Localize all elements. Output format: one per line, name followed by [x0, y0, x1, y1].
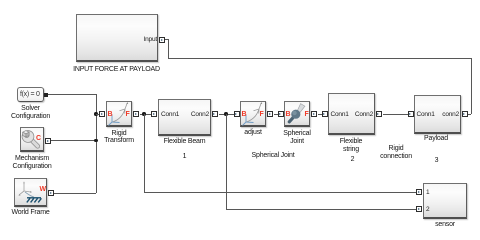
port label 1 of sensor [426, 189, 429, 196]
pin label F (red) of Spherical Joint [305, 111, 309, 118]
port world frame W [48, 190, 54, 196]
wire down segment to Payload conn2 [471, 58, 472, 114]
block Flexible Beam [158, 99, 211, 136]
annotation 1 [183, 153, 187, 161]
icon adjust frames [240, 101, 266, 127]
port RT B [99, 111, 105, 117]
wire horizontal to sensor port 2 [226, 209, 416, 210]
wire horizontal to sensor port 1 [144, 192, 416, 193]
block Payload [414, 95, 461, 134]
icon rigid transform frames [106, 101, 132, 127]
junction bus to Rigid Transform [94, 112, 98, 116]
block sensor [423, 183, 467, 219]
pin label W (red) [40, 186, 47, 193]
junction bus to mechanism wire [94, 139, 98, 143]
port label Conn2 of Flexible Beam [191, 111, 209, 118]
port SJ B [278, 111, 284, 117]
annotation Spherical Joint [252, 152, 295, 160]
port solver configuration (filled) [44, 93, 48, 97]
port Payload conn2 [462, 111, 468, 117]
label Spherical Joint (block) [283, 130, 310, 145]
port label Input [144, 36, 157, 43]
pin label F (red) of adjust [260, 111, 264, 118]
icon wrench [20, 127, 44, 152]
port label conn2 of Payload [442, 111, 459, 118]
label Flexible Beam [164, 138, 206, 146]
wire adjust F to Spherical Joint B [274, 114, 278, 115]
label Flexible string [340, 138, 363, 153]
wire world frame to bus [54, 193, 96, 194]
annotation 3 [435, 157, 439, 165]
block Flexible string [328, 93, 375, 135]
label INPUT FORCE AT PAYLOAD [73, 66, 160, 74]
block Mechanism Configuration [20, 127, 44, 152]
port SJ F [311, 111, 317, 117]
wire stub into Payload conn2 [468, 114, 471, 115]
port label 2 of sensor [426, 206, 429, 213]
label Solver Configuration [11, 105, 50, 121]
wire FB Conn2 to adjust B [219, 114, 234, 115]
wire RT F to Flexible Beam Conn1 [140, 114, 152, 115]
port adjust B [234, 111, 240, 117]
wire junction down toward sensor 1 [144, 114, 145, 192]
wire Input down segment [168, 39, 169, 58]
block adjust (rigid transform) [240, 101, 266, 127]
annotation Rigid connection [380, 145, 412, 161]
junction RT-FB node [142, 112, 146, 116]
port sensor 2 [416, 206, 422, 212]
pin label B (red) of Spherical Joint [286, 111, 291, 118]
port FB Conn2 [212, 111, 218, 117]
junction FB-adjust node [224, 112, 228, 116]
pin label C (red) [36, 135, 41, 142]
port Payload Conn1 [408, 111, 414, 117]
wire solver to bus [48, 94, 96, 95]
icon text f(x) = 0 [20, 91, 40, 98]
label Payload [424, 135, 448, 143]
port Input of INPUT FORCE AT PAYLOAD [159, 37, 165, 43]
label Mechanism Configuration [12, 155, 51, 171]
wire FS Conn2 to Payload Conn1 [383, 114, 408, 115]
icon ball joint [284, 101, 310, 127]
annotation 2 [351, 156, 355, 164]
label adjust [244, 129, 261, 137]
pin label F (red) of Rigid Transform [126, 111, 130, 118]
block World Frame [14, 178, 47, 207]
pin label B (red) of adjust [242, 111, 247, 118]
block Solver Configuration [17, 87, 44, 102]
wire mechanism to bus [51, 140, 96, 141]
wire junction down toward sensor 2 [226, 114, 227, 209]
port FS Conn2 [376, 111, 382, 117]
label World Frame [11, 209, 49, 217]
icon world frame axes and ground [14, 178, 47, 207]
port label Conn2 of Flexible string [355, 111, 373, 118]
wire Input long horizontal segment [168, 58, 471, 59]
wire bus vertical [96, 94, 97, 193]
port label Conn1 of Flexible string [331, 111, 349, 118]
port FB Conn1 [151, 111, 157, 117]
port label Conn1 of Payload [417, 111, 435, 118]
port sensor 1 [416, 189, 422, 195]
subsystem block INPUT FORCE AT PAYLOAD [76, 14, 158, 62]
wire bus to RT B port [96, 114, 100, 115]
pin label B (red) of Rigid Transform [108, 111, 113, 118]
port adjust F [267, 111, 273, 117]
port RT F [133, 111, 139, 117]
port label Conn1 of Flexible Beam [161, 111, 179, 118]
port FS Conn1 [322, 111, 328, 117]
label sensor [435, 221, 455, 229]
wire Input stub right [165, 39, 169, 40]
port mechanism configuration C [45, 138, 51, 144]
block Rigid Transform [106, 101, 132, 127]
wire SJ F to Flexible string Conn1 [318, 114, 322, 115]
block Spherical Joint [284, 101, 310, 127]
label Rigid Transform [104, 130, 134, 145]
